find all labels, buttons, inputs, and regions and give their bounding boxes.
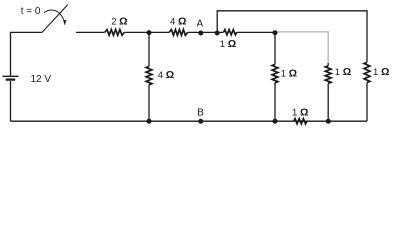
junction bottom of 4 ohm: [147, 119, 152, 124]
resistor R8 1 ohm horizontal bottom: [294, 119, 307, 124]
junction bottom first branch: [273, 119, 278, 124]
junction below top rail: [215, 31, 220, 36]
svg-text:1 Ω: 1 Ω: [373, 66, 389, 78]
gray wire to second branch: [277, 32, 328, 63]
wire R3 to node: [237, 31, 275, 33]
svg-text:1 Ω: 1 Ω: [335, 66, 351, 78]
resistor R1 2 ohm horizontal: [105, 30, 124, 36]
wire R1 to node: [124, 31, 169, 33]
svg-text:2 Ω: 2 Ω: [111, 16, 127, 28]
resistor R7 1 ohm vertical third branch: [364, 62, 370, 121]
junction bottom second branch: [326, 119, 331, 124]
resistor R2 4 ohm horizontal: [169, 30, 187, 36]
wire switch contact to R1: [76, 31, 105, 33]
wire R2 to node A to junction: [188, 31, 224, 33]
svg-text:A: A: [197, 19, 204, 30]
top rail wire: [217, 11, 367, 63]
svg-text:12 V: 12 V: [31, 74, 52, 85]
junction top of 4 ohm: [147, 30, 152, 35]
svg-text:B: B: [197, 107, 204, 118]
switch S1 blade (open): [42, 5, 68, 33]
bottom wire: [11, 120, 368, 122]
wire left vertical + top-left corner: [11, 32, 43, 75]
svg-text:4 Ω: 4 Ω: [158, 69, 174, 81]
resistor R5 1 ohm vertical first branch: [272, 33, 278, 121]
battery V1 12V: [3, 76, 19, 79]
svg-text:t = 0: t = 0: [21, 6, 41, 17]
node right of R3: [273, 30, 278, 35]
svg-text:1 Ω: 1 Ω: [292, 107, 308, 119]
switch closing arrow arc: [44, 10, 66, 25]
svg-text:4 Ω: 4 Ω: [170, 15, 186, 27]
wire battery to bottom: [10, 81, 12, 121]
svg-text:1 Ω: 1 Ω: [281, 67, 297, 79]
svg-text:1 Ω: 1 Ω: [220, 38, 236, 50]
resistor R6 1 ohm vertical second branch: [325, 63, 331, 121]
node B: [198, 119, 203, 124]
resistor R4 4 ohm vertical: [146, 33, 152, 121]
node A: [198, 31, 203, 36]
resistor R3 1 ohm horizontal: [224, 30, 237, 35]
